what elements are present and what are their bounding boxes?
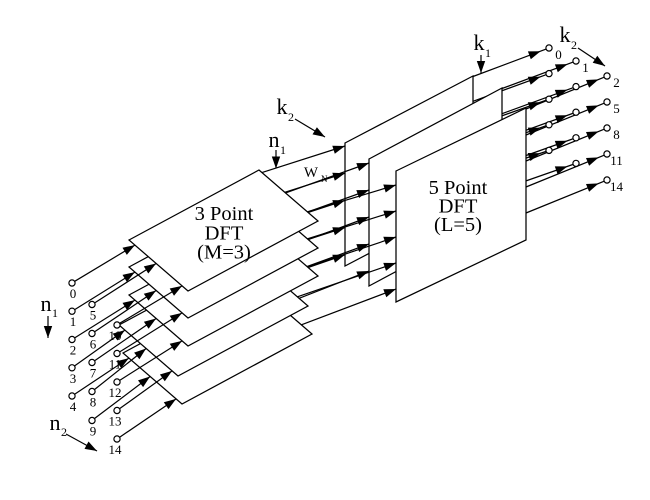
- svg-text:13: 13: [109, 414, 122, 429]
- svg-text:(L=5): (L=5): [434, 214, 482, 236]
- svg-text:1: 1: [485, 46, 491, 60]
- svg-text:9: 9: [90, 424, 97, 439]
- svg-text:1: 1: [70, 314, 77, 329]
- svg-text:k: k: [560, 22, 571, 47]
- svg-text:k: k: [277, 94, 288, 119]
- svg-text:11: 11: [109, 357, 122, 372]
- svg-text:0: 0: [555, 47, 562, 62]
- svg-text:10: 10: [109, 328, 122, 343]
- svg-text:k: k: [474, 30, 485, 55]
- svg-text:14: 14: [610, 179, 624, 194]
- svg-text:8: 8: [90, 395, 97, 410]
- svg-text:12: 12: [109, 385, 122, 400]
- svg-text:2: 2: [571, 38, 577, 52]
- svg-text:1: 1: [52, 306, 58, 320]
- svg-text:5: 5: [613, 101, 620, 116]
- svg-text:2: 2: [288, 110, 294, 124]
- svg-text:11: 11: [610, 153, 623, 168]
- svg-text:6: 6: [90, 337, 97, 352]
- svg-text:(M=3): (M=3): [197, 242, 251, 264]
- svg-text:14: 14: [109, 442, 123, 457]
- svg-text:N: N: [321, 174, 328, 184]
- svg-text:3: 3: [70, 371, 77, 386]
- svg-text:7: 7: [90, 366, 97, 381]
- svg-text:2: 2: [61, 425, 67, 439]
- svg-text:2: 2: [70, 343, 77, 358]
- svg-text:1: 1: [280, 143, 286, 157]
- svg-text:8: 8: [613, 127, 620, 142]
- svg-text:n: n: [50, 410, 61, 435]
- svg-text:4: 4: [70, 399, 77, 414]
- svg-text:n: n: [41, 291, 52, 316]
- svg-text:2: 2: [613, 75, 620, 90]
- svg-text:n: n: [269, 127, 280, 152]
- svg-text:1: 1: [582, 60, 589, 75]
- svg-text:W: W: [304, 165, 319, 181]
- svg-text:0: 0: [70, 286, 77, 301]
- svg-text:5: 5: [90, 308, 97, 323]
